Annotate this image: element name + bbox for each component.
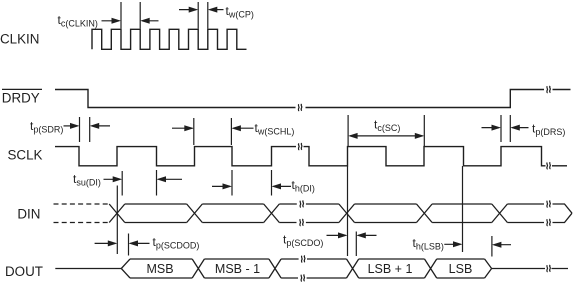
svg-text:tp(SCDOD): tp(SCDOD) — [153, 235, 200, 251]
svg-text:th(LSB): th(LSB) — [413, 236, 444, 252]
svg-text:tsu(DI): tsu(DI) — [73, 172, 101, 188]
break symbol on DIN right top — [547, 200, 551, 207]
break symbol on SCLK right — [547, 162, 551, 169]
marker t_su(DI) right at SCLK falling edge — [156, 170, 158, 196]
marker t_w(SCHL) right at SCLK falling edge — [230, 118, 232, 145]
marker t_p(SCDOD) left long line at SCLK rising edge through DIN — [116, 186, 118, 255]
arrow t_p(SCDO) pointing right — [327, 234, 346, 236]
break symbol on DRDY right — [547, 86, 551, 93]
marker t_h(LSB) right at DOUT LSB end — [491, 236, 493, 257]
break symbol on DOUT mid bottom — [301, 274, 305, 281]
marker t_h(DI) right at DIN transition — [271, 170, 273, 196]
DIN crossing X4 — [339, 204, 355, 223]
svg-text:tp(DRS): tp(DRS) — [532, 122, 565, 138]
svg-text:MSB: MSB — [146, 262, 173, 276]
marker t_p(SDR) right at DRDY falling edge — [89, 117, 91, 142]
break symbol on DIN mid bottom — [300, 219, 304, 226]
arrow t_h(DI) pointing right — [212, 185, 230, 187]
marker t_p(SCDO) right at DOUT transition — [355, 232, 357, 257]
DRDY waveform left: high then falling edge then low to mid break — [55, 90, 296, 108]
break symbol on DOUT right — [547, 265, 551, 272]
svg-text:DOUT: DOUT — [5, 264, 43, 279]
SCLK waveform left of mid break — [55, 147, 296, 166]
DOUT stub after right break — [552, 268, 569, 270]
arrow t_h(LSB) pointing right — [444, 243, 460, 245]
arrow t_c(CLKIN) pointing right — [102, 20, 120, 22]
svg-text:th(DI): th(DI) — [292, 178, 315, 194]
svg-text:tw(SCHL): tw(SCHL) — [255, 121, 295, 137]
DOUT eye LSB closing — [485, 259, 492, 278]
arrow t_p(DRS) pointing left — [512, 127, 528, 129]
DOUT eye LSB top and bottom — [437, 259, 485, 278]
arrow t_p(SCDOD) pointing right — [95, 242, 116, 244]
DIN crossing X5 — [417, 204, 433, 223]
svg-text:tc(SC): tc(SC) — [374, 118, 400, 134]
arrow t_h(LSB) pointing left — [494, 244, 511, 246]
svg-text:DRDY: DRDY — [2, 90, 40, 105]
marker t_p(SDR) left at SCLK falling edge — [79, 117, 81, 142]
DOUT crossing X2 — [192, 259, 204, 278]
DIN eye 4 top and bottom — [355, 204, 417, 223]
break symbol on DIN right bottom — [547, 219, 551, 226]
DOUT eye after mid break to X4 — [307, 259, 347, 278]
DIN eye 6 to right break — [507, 204, 544, 223]
DIN crossing X3 — [264, 204, 280, 223]
DOUT trailing line to right break — [492, 268, 545, 270]
marker t_h(DI) left at SCLK falling edge — [231, 170, 233, 196]
DIN dashed top line — [54, 203, 110, 205]
marker t_p(DRS) left at SCLK rising edge — [500, 115, 502, 142]
DRDY stub after right break — [553, 89, 571, 91]
arrow t_c(SC) double headed — [350, 135, 423, 137]
arrow t_su(DI) pointing left — [159, 178, 183, 180]
arrow t_p(SCDO) pointing left — [358, 234, 376, 236]
DIN eye close after right break — [553, 204, 573, 223]
marker t_p(SCDO) left long line at SCLK rising edge through DIN — [347, 166, 349, 256]
marker t_su(DI) left at DIN valid — [121, 171, 123, 196]
DIN dashed bottom line — [54, 222, 110, 224]
DIN crossing X1 — [109, 204, 125, 223]
marker t_p(DRS) right at DRDY rising edge — [509, 115, 511, 142]
svg-text:tw(CP): tw(CP) — [226, 4, 254, 20]
arrow t_h(DI) pointing left — [274, 185, 292, 187]
svg-text:LSB: LSB — [449, 262, 473, 276]
CLKIN waveform — [92, 29, 247, 49]
arrow t_p(SDR) pointing left — [92, 125, 110, 127]
DIN eye 3 to mid break — [279, 204, 297, 223]
DOUT eye MSB top and bottom — [130, 259, 192, 278]
DIN eye 3 after mid break to X4 — [306, 204, 339, 223]
marker t_c(SC) right at next SCLK rising edge — [423, 115, 425, 147]
arrow t_w(SCHL) pointing right — [172, 127, 193, 129]
marker t_w(CP) right at CLKIN rising edge — [207, 2, 209, 29]
svg-text:tp(SCDO): tp(SCDO) — [283, 232, 323, 248]
svg-text:MSB - 1: MSB - 1 — [215, 262, 260, 276]
svg-text:tp(SDR): tp(SDR) — [30, 119, 63, 135]
DIN crossing X2 — [187, 204, 203, 223]
DIN eye 5 top and bottom — [432, 204, 492, 223]
DOUT crossing X5 — [425, 259, 437, 278]
svg-text:CLKIN: CLKIN — [0, 32, 39, 47]
arrow t_p(SCDOD) pointing left — [131, 242, 150, 244]
marker t_c(CLKIN) right at next CLKIN falling edge — [139, 2, 141, 29]
DOUT eye LSB+1 top and bottom — [359, 259, 425, 278]
DOUT eye MSB opening — [121, 259, 130, 278]
marker t_w(SCHL) left at SCLK rising edge — [193, 118, 195, 145]
DOUT crossing X4 — [347, 259, 359, 278]
SCLK stub after right break — [552, 165, 567, 167]
arrow t_c(CLKIN) pointing left — [142, 20, 158, 22]
SCLK waveform right of mid break — [304, 147, 546, 166]
break symbol on SCLK mid — [298, 143, 302, 150]
arrow t_su(DI) pointing right — [104, 178, 121, 180]
arrow t_w(SCHL) pointing left — [233, 127, 253, 129]
svg-text:SCLK: SCLK — [8, 148, 43, 163]
svg-text:DIN: DIN — [17, 207, 40, 222]
DIN eye 2 top and bottom — [202, 204, 263, 223]
arrow t_w(CP) pointing left — [210, 9, 224, 11]
DOUT crossing X3 — [269, 259, 281, 278]
marker t_h(LSB) left long line at SCLK falling edge through DIN — [462, 166, 464, 252]
DOUT lead line — [55, 268, 121, 270]
break symbol on DIN mid top — [300, 200, 304, 207]
marker t_c(SC) left at SCLK rising edge — [347, 115, 349, 147]
DOUT eye MSB-1 top and bottom — [204, 259, 269, 278]
svg-text:LSB + 1: LSB + 1 — [368, 262, 413, 276]
DIN crossing X6 — [492, 204, 508, 223]
marker t_w(CP) left at CLKIN falling edge — [197, 2, 199, 29]
break symbol on DOUT mid top — [301, 255, 305, 262]
arrow t_p(SDR) pointing right — [64, 125, 78, 127]
DIN eye 1 top and bottom — [125, 204, 187, 223]
arrow t_w(CP) pointing right — [179, 9, 196, 11]
arrow t_p(DRS) pointing right — [482, 127, 500, 129]
break symbol on DRDY mid — [298, 104, 302, 111]
DOUT eye to mid break — [281, 259, 299, 278]
marker t_c(CLKIN) left at CLKIN falling edge — [120, 2, 122, 29]
svg-text:tc(CLKIN): tc(CLKIN) — [58, 13, 98, 29]
marker t_p(SCDOD) right at DOUT valid — [128, 234, 130, 256]
DRDY waveform low after mid break, rising edge, high to right break — [306, 90, 545, 108]
